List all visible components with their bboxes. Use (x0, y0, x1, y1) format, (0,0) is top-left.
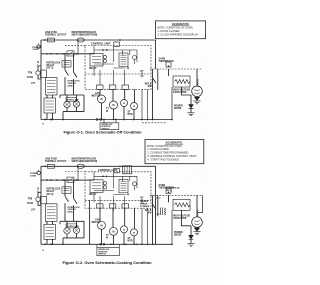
svg-text:FUSE: FUSE (27, 77, 34, 79)
svg-text:4. “START” PAD TOUCHED: 4. “START” PAD TOUCHED (147, 157, 179, 161)
svg-text:DIODE: DIODE (174, 234, 182, 236)
svg-text:(2ND.): (2ND.) (68, 212, 74, 214)
svg-text:FUSE: FUSE (27, 203, 34, 205)
svg-text:CORD: CORD (32, 49, 39, 51)
svg-text:2. COOKING TIME PROGRAMMED: 2. COOKING TIME PROGRAMMED (147, 151, 188, 155)
svg-text:THERMISTOR: THERMISTOR (159, 61, 174, 63)
svg-text:1. DOOR CLOSED: 1. DOOR CLOSED (147, 147, 169, 151)
svg-text:SCHEMATIC: SCHEMATIC (166, 140, 184, 144)
svg-text:N: N (43, 250, 45, 252)
svg-text:MOTOR: MOTOR (91, 96, 100, 98)
svg-text:A2: A2 (141, 75, 145, 78)
svg-text:CORD: CORD (30, 176, 37, 178)
svg-text:Figure O-2. Oven Schematic-Coo: Figure O-2. Oven Schematic-Cooking Condi… (62, 260, 152, 265)
svg-text:CONTROL UNIT: CONTROL UNIT (98, 168, 118, 172)
svg-text:LVT: LVT (31, 209, 36, 211)
svg-text:SCHEMATIC: SCHEMATIC (172, 22, 190, 26)
svg-text:M: M (106, 237, 108, 239)
svg-text:(RY-2): (RY-2) (47, 193, 54, 196)
svg-text:CONTROL UNIT: CONTROL UNIT (91, 42, 111, 46)
svg-text:M: M (101, 224, 103, 227)
svg-text:SWITCH(MAGNETRON): SWITCH(MAGNETRON) (72, 160, 98, 163)
svg-text:LVT: LVT (31, 83, 36, 85)
svg-text:(RY-2): (RY-2) (47, 67, 54, 70)
svg-text:M: M (123, 103, 125, 105)
svg-text:SW: SW (148, 212, 153, 214)
svg-text:1. DOOR CLOSED: 1. DOOR CLOSED (158, 29, 180, 33)
svg-text:NOTE: CONDITION OF OVEN: NOTE: CONDITION OF OVEN (157, 26, 193, 30)
svg-text:TTM: TTM (28, 72, 33, 74)
svg-text:FORMER: FORMER (140, 206, 150, 208)
svg-text:SWITCH: SWITCH (98, 254, 106, 256)
svg-text:MTR: MTR (128, 240, 133, 242)
svg-text:M: M (106, 111, 108, 113)
svg-text:SW: SW (148, 86, 153, 88)
svg-text:N: N (43, 124, 45, 126)
svg-text:OVEN LAMP: OVEN LAMP (67, 225, 80, 228)
svg-text:NOTE: CONDITION OF OVEN: NOTE: CONDITION OF OVEN (147, 144, 182, 148)
svg-text:MOTOR: MOTOR (91, 222, 100, 224)
svg-text:THERMAL CUTOUT: THERMAL CUTOUT (45, 34, 67, 37)
svg-text:3. VARIABLE COOKING CONTROL “: 3. VARIABLE COOKING CONTROL “HIGH” (147, 154, 197, 158)
svg-text:OVEN LAMP: OVEN LAMP (67, 99, 80, 102)
svg-text:M: M (133, 232, 135, 234)
svg-text:M: M (133, 106, 135, 108)
svg-text:THERMAL CUTOUT: THERMAL CUTOUT (45, 160, 67, 163)
svg-text:M: M (113, 230, 115, 233)
svg-text:(2ND.): (2ND.) (68, 85, 74, 87)
svg-text:Figure O-1. Oven Schematic-Off: Figure O-1. Oven Schematic-Off Condition (63, 130, 142, 135)
svg-text:2. CLOCK APPEARS ON DISPLAY: 2. CLOCK APPEARS ON DISPLAY (158, 33, 199, 37)
svg-text:MTR: MTR (128, 114, 133, 116)
svg-text:M: M (123, 229, 125, 231)
svg-text:DIODE: DIODE (174, 108, 182, 110)
svg-text:TTM: TTM (28, 199, 33, 201)
svg-text:M: M (113, 104, 115, 107)
svg-text:CAPACITOR: CAPACITOR (173, 91, 187, 94)
svg-text:RELAY: RELAY (89, 193, 97, 196)
svg-text:RELAY: RELAY (89, 67, 97, 70)
svg-text:M: M (101, 98, 103, 101)
svg-text:(RY-1): (RY-1) (166, 190, 172, 192)
svg-text:SWITCH(MAGNETRON): SWITCH(MAGNETRON) (72, 34, 98, 37)
svg-text:CAPACITOR: CAPACITOR (173, 217, 187, 220)
